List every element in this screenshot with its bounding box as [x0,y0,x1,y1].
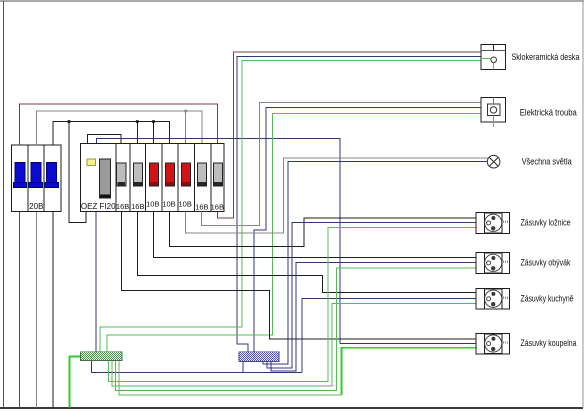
wire koupelna PE (bright upper run) [342,348,476,395]
label zasuvky loznice [521,217,571,227]
wire kuchyne PE [112,303,476,386]
svg-text:Zásuvky obývák: Zásuvky obývák [521,257,571,267]
wire hob phase L1 (16B#4 to hob) [218,52,482,218]
socket outlet zasuvky loznice [476,213,510,234]
svg-text:Zásuvky koupelna: Zásuvky koupelna [521,338,577,348]
label Elektricka trouba [520,107,577,117]
lamp symbol (vsechna svetla) [487,155,500,168]
svg-text:16B: 16B [195,203,208,212]
svg-text:16B: 16B [131,202,144,211]
label 20B [29,202,43,211]
breaker toggle pole 1 (blue) [13,162,26,187]
svg-text:16B: 16B [116,202,129,211]
wire loznice neutral [267,223,476,368]
wire koupelna phase (16B#1) [122,212,476,340]
breaker toggle pole 3 (blue) [45,162,58,187]
wire L3 phase (main to FI,16B#2,10B#1,10B#2) [53,122,169,223]
socket outlet zasuvky koupelna [476,333,510,354]
circuit breaker 20B (3-pole main) [12,145,61,211]
MCB 10B#3 toggle [149,163,158,186]
svg-text:Zásuvky kuchyně: Zásuvky kuchyně [521,293,574,303]
N bus bar (terminal strip) [239,352,279,362]
oven connector circle [490,107,496,113]
load box sklokeramicka deska [481,45,506,70]
svg-text:Zásuvky ložnice: Zásuvky ložnice [521,217,571,227]
wire PE supply (bright green bottom feed) [70,356,81,407]
socket outlet zasuvky kuchyne [476,289,510,310]
wire kuchyne neutral [302,298,476,372]
wire oven phase L2 (16B#3 to oven) [202,103,482,226]
wire koupelna neutral [340,343,476,345]
svg-text:Elektrická trouba: Elektrická trouba [520,107,577,117]
wire obyvak PE [116,268,476,391]
label zasuvky koupelna [521,338,577,348]
MCB 16B#1 toggle [117,163,126,186]
svg-text:10B: 10B [179,199,192,208]
wire lights phase L2 (10B#3 to lamp) [186,158,489,233]
wire N supply to FI (top) [97,139,341,344]
svg-text:OEZ FI20: OEZ FI20 [81,202,116,211]
distribution panel (DIN rail) [81,144,224,212]
svg-text:16B: 16B [211,203,224,212]
svg-text:20B: 20B [29,202,43,211]
label Sklokeramicka deska [512,52,580,62]
wire oven neutral [254,108,481,359]
wire L2 phase (main to 10B#3/16B#3) [37,111,203,145]
wire obyvak phase (10B#1) [154,212,476,258]
junction dots L3 [67,120,155,123]
label zasuvky kuchyne [521,293,574,303]
indicator lamp (yellow) on FI [87,159,96,166]
wire L1 phase (main to 16B#4) [20,104,218,145]
wire koupelna PE bottom rail [119,360,342,395]
svg-text:Sklokeramická deska: Sklokeramická deska [512,52,580,62]
wire loznice phase (10B#2) [170,212,476,247]
wire FI neutral out (to N link) [92,212,303,373]
svg-text:Všechna světla: Všechna světla [522,157,572,167]
hob connector circle [481,57,497,70]
MCB 16B#7 toggle [213,163,222,186]
MCB 16B#6 toggle [197,163,206,186]
wire kuchyne phase (16B#2) [138,212,476,293]
PE bus bar (terminal strip) [81,352,122,361]
MCB 16B#2 toggle [133,163,142,186]
wire L2 supply (bottom feed) [36,212,38,408]
wire L3 supply (bottom feed) [52,212,54,408]
label zasuvky obyvak [521,257,571,267]
panel module dividers [116,144,211,212]
MCB 10B#5 toggle [181,163,190,186]
wire obyvak neutral [271,262,476,371]
wire N bus tap (bus to N link) [242,361,244,372]
svg-text:10B: 10B [162,199,175,208]
breaker toggle pole 2 (blue) [29,162,42,187]
RCD OEZ FI20 toggle [100,159,111,198]
wire oven PE [107,114,488,352]
svg-text:10B: 10B [146,199,159,208]
junction dot L2 [184,110,187,113]
load box elektricka trouba [481,97,506,127]
wire loznice PE [109,227,476,381]
wire FI phase out to 16B#1 (loop above panel) [87,134,121,143]
label OEZ FI20 [81,202,116,211]
socket outlet zasuvky obyvak [476,253,510,274]
labels MCB ratings [116,199,224,211]
wire L1 supply (bottom feed) [19,212,21,408]
label Vsechna svetla [522,157,572,167]
wire hob PE [100,61,481,352]
MCB 10B#4 toggle [165,163,174,186]
wire lights neutral [263,161,488,364]
wire hob neutral [237,57,481,359]
